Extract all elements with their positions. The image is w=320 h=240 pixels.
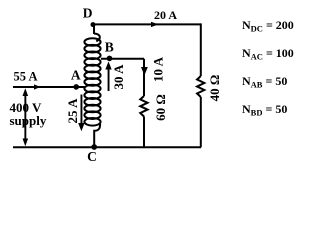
svg-text:NAC = 100: NAC = 100 (242, 46, 294, 62)
svg-text:C: C (87, 149, 97, 164)
svg-text:A: A (71, 68, 81, 83)
svg-text:supply: supply (10, 113, 47, 128)
svg-text:20 A: 20 A (154, 8, 177, 22)
svg-text:30 A: 30 A (111, 64, 126, 90)
svg-text:40 Ω: 40 Ω (207, 75, 222, 102)
svg-text:NBD = 50: NBD = 50 (242, 102, 287, 118)
svg-text:60 Ω: 60 Ω (153, 94, 168, 121)
svg-text:25 A: 25 A (65, 98, 80, 124)
svg-text:55 A: 55 A (14, 70, 38, 84)
svg-text:B: B (105, 39, 114, 54)
svg-text:10 A: 10 A (151, 56, 166, 82)
svg-text:NAB = 50: NAB = 50 (242, 74, 287, 90)
svg-text:D: D (83, 6, 93, 21)
svg-text:NDC = 200: NDC = 200 (242, 18, 294, 34)
